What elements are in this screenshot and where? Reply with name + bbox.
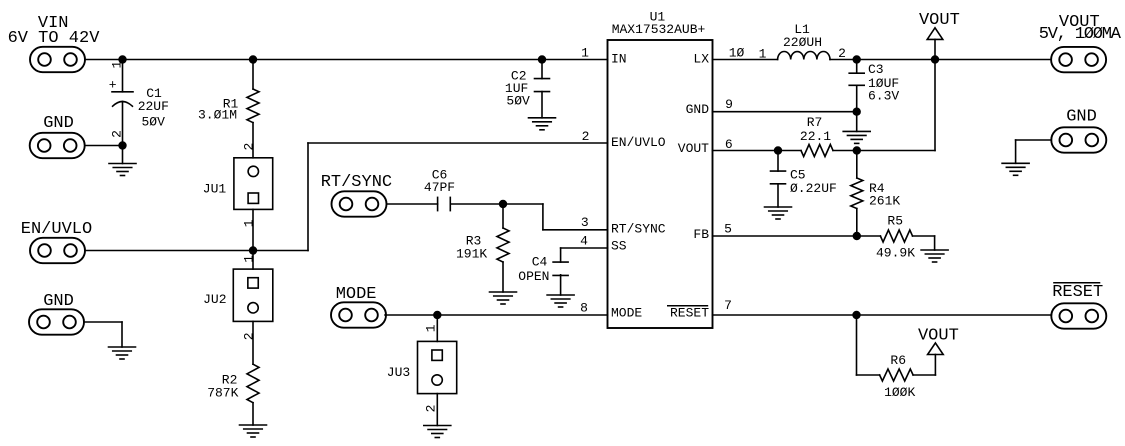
svg-text:2: 2 — [838, 46, 846, 61]
svg-text:C3: C3 — [868, 62, 884, 77]
svg-text:FB: FB — [693, 227, 709, 242]
svg-text:4: 4 — [580, 234, 588, 249]
svg-text:GND: GND — [43, 292, 74, 311]
svg-text:2: 2 — [242, 332, 257, 340]
svg-text:+: + — [109, 77, 117, 92]
svg-text:RESET: RESET — [670, 305, 709, 320]
svg-text:GND: GND — [1066, 107, 1097, 126]
svg-text:3.Ø1M: 3.Ø1M — [198, 108, 237, 123]
svg-text:VOUT: VOUT — [918, 327, 959, 346]
svg-text:GND: GND — [43, 114, 74, 133]
svg-text:191K: 191K — [456, 246, 487, 261]
svg-text:C4: C4 — [532, 255, 548, 270]
svg-text:261K: 261K — [869, 194, 900, 209]
svg-text:MODE: MODE — [336, 285, 377, 304]
svg-text:RT/SYNC: RT/SYNC — [321, 173, 392, 192]
svg-text:OPEN: OPEN — [518, 269, 549, 284]
svg-text:5ØV: 5ØV — [506, 94, 530, 109]
svg-text:49.9K: 49.9K — [876, 245, 915, 260]
svg-text:22ØUH: 22ØUH — [783, 35, 822, 50]
svg-text:RESET: RESET — [1052, 283, 1103, 302]
svg-text:VOUT: VOUT — [919, 11, 960, 30]
svg-text:787K: 787K — [207, 385, 238, 400]
svg-text:1: 1 — [424, 324, 439, 332]
svg-text:EN/UVLO: EN/UVLO — [611, 135, 666, 150]
svg-text:2: 2 — [582, 129, 590, 144]
svg-text:Ø.22UF: Ø.22UF — [790, 181, 837, 196]
svg-text:1: 1 — [110, 61, 125, 69]
svg-text:R7: R7 — [807, 115, 823, 130]
svg-text:2: 2 — [424, 405, 439, 413]
svg-text:R5: R5 — [887, 213, 903, 228]
svg-text:5: 5 — [724, 222, 732, 237]
svg-text:47PF: 47PF — [424, 180, 455, 195]
svg-text:JU3: JU3 — [387, 365, 410, 380]
svg-text:8: 8 — [580, 301, 588, 316]
svg-text:GND: GND — [686, 102, 710, 117]
svg-text:5ØV: 5ØV — [141, 115, 165, 130]
svg-text:1ØØK: 1ØØK — [884, 385, 915, 400]
svg-text:6.3V: 6.3V — [868, 89, 899, 104]
svg-text:RT/SYNC: RT/SYNC — [611, 222, 666, 237]
svg-text:JU2: JU2 — [203, 292, 226, 307]
svg-text:2: 2 — [242, 143, 257, 151]
svg-text:MAX17532AUB+: MAX17532AUB+ — [612, 22, 706, 37]
svg-text:3: 3 — [581, 215, 589, 230]
svg-text:MODE: MODE — [611, 305, 642, 320]
svg-text:6: 6 — [725, 137, 733, 152]
svg-text:7: 7 — [724, 298, 732, 313]
svg-text:1: 1 — [759, 47, 767, 62]
svg-text:22.1: 22.1 — [800, 129, 831, 144]
svg-text:1: 1 — [581, 46, 589, 61]
svg-text:1Ø: 1Ø — [729, 46, 745, 61]
svg-text:22UF: 22UF — [138, 99, 169, 114]
svg-text:5V, 1ØØMA: 5V, 1ØØMA — [1039, 25, 1122, 44]
svg-text:6V TO 42V: 6V TO 42V — [8, 29, 101, 48]
svg-text:9: 9 — [725, 97, 733, 112]
svg-text:LX: LX — [693, 52, 709, 67]
svg-text:1: 1 — [242, 255, 257, 263]
svg-text:1: 1 — [242, 219, 257, 227]
svg-text:EN/UVLO: EN/UVLO — [21, 220, 92, 239]
svg-text:VOUT: VOUT — [678, 141, 709, 156]
svg-text:2: 2 — [110, 130, 125, 138]
svg-text:IN: IN — [611, 52, 627, 67]
svg-text:JU1: JU1 — [203, 181, 227, 196]
svg-text:SS: SS — [611, 239, 627, 254]
svg-text:R6: R6 — [890, 353, 906, 368]
